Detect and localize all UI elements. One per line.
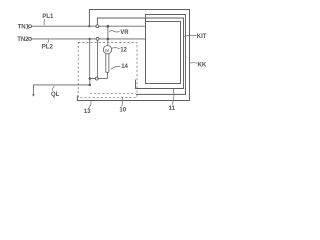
svg-text:TN1: TN1 — [18, 24, 30, 30]
svg-text:PL2: PL2 — [42, 44, 54, 50]
svg-text:14: 14 — [121, 64, 128, 70]
svg-text:13: 13 — [84, 109, 91, 115]
svg-text:KK: KK — [198, 62, 207, 68]
svg-text:VR: VR — [120, 30, 129, 36]
svg-text:10: 10 — [119, 108, 126, 114]
svg-text:PL1: PL1 — [42, 14, 54, 20]
svg-text:TN2: TN2 — [17, 37, 29, 43]
svg-text:12: 12 — [120, 47, 127, 53]
svg-text:11: 11 — [169, 106, 176, 112]
svg-text:M: M — [105, 48, 109, 53]
svg-text:KIT: KIT — [197, 34, 207, 40]
svg-text:QL: QL — [51, 92, 60, 98]
